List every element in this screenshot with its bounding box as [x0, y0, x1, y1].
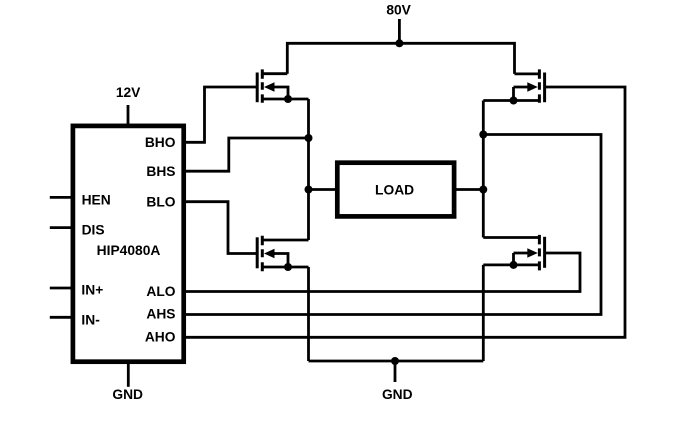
- wire IC bottom to GND stub: [127, 363, 130, 387]
- junction dot lower-right source/body: [510, 261, 518, 269]
- MOSFET upper-right Q2 source lead: [483, 99, 539, 102]
- svg-text:AHO: AHO: [145, 329, 176, 344]
- MOSFET upper-right Q2 channel segments: [538, 69, 541, 102]
- wire node B phase vertical: [307, 99, 310, 240]
- MOSFET lower-right Q4 source lead: [483, 263, 539, 266]
- wire 12V stub to IC top: [127, 105, 130, 125]
- svg-text:AHS: AHS: [146, 307, 175, 322]
- wire BLO gate wire to lower-left MOSFET: [184, 202, 256, 254]
- svg-text:BHO: BHO: [145, 135, 176, 150]
- MOSFET upper-right Q2 drain lead: [515, 73, 540, 76]
- svg-text:IN+: IN+: [81, 283, 103, 298]
- junction dot upper-right source/body: [510, 97, 518, 105]
- junction dot ground rail: [391, 357, 399, 365]
- MOSFET lower-left Q3 body arrow: [274, 254, 289, 268]
- svg-text:IN-: IN-: [81, 313, 100, 328]
- wire node A phase vertical: [482, 101, 485, 238]
- wire BHS sense wire to node B: [184, 138, 309, 171]
- junction dot 80V rail: [395, 39, 403, 47]
- MOSFET upper-left Q1 gate bar: [256, 73, 259, 103]
- MOSFET lower-left Q3 source lead: [262, 266, 308, 269]
- MOSFET upper-right Q2 gate bar: [543, 73, 546, 103]
- MOSFET lower-left Q3 drain lead: [262, 239, 308, 242]
- pin HEN stub: [50, 196, 72, 199]
- MOSFET upper-left Q1 drain lead: [262, 72, 287, 75]
- junction dot lower-left source/body: [284, 263, 292, 271]
- svg-text:ALO: ALO: [146, 284, 175, 299]
- MOSFET upper-left Q1 channel segments: [261, 69, 264, 102]
- svg-text:80V: 80V: [386, 3, 411, 18]
- junction dot BHS on node B: [305, 134, 313, 142]
- svg-text:BLO: BLO: [146, 195, 175, 210]
- MOSFET lower-right Q4 channel segments: [538, 235, 541, 271]
- junction dot AHS on node A: [479, 131, 487, 139]
- svg-text:DIS: DIS: [82, 223, 105, 238]
- junction dot node B to load: [305, 186, 313, 194]
- wire LOAD right terminal to node A: [454, 188, 483, 191]
- junction dot node A to load: [479, 186, 487, 194]
- MOSFET lower-right Q4 drain lead: [483, 236, 539, 239]
- wire 80V top rail with drops to both high-side drains: [287, 43, 514, 74]
- MOSFET lower-left Q3 channel segments: [261, 236, 264, 271]
- wire node B to LOAD left terminal: [309, 188, 338, 191]
- MOSFET upper-left Q1 body arrow: [274, 87, 289, 99]
- IC U1 HIP4080A body: [73, 126, 184, 362]
- MOSFET lower-left Q3 gate bar: [256, 237, 259, 268]
- pin DIS stub: [50, 226, 72, 229]
- svg-text:BHS: BHS: [146, 164, 175, 179]
- MOSFET lower-right Q4 body arrow: [514, 253, 529, 265]
- pin IN- stub: [50, 316, 72, 319]
- wire AHS sense wire to node A: [184, 135, 601, 315]
- wire ground rail: [309, 360, 484, 363]
- svg-text:GND: GND: [112, 387, 143, 402]
- wire ALO gate wire to lower-right MOSFET: [184, 253, 580, 292]
- wire lower-right source down to ground rail: [482, 265, 485, 361]
- wire BHO gate wire to upper-left MOSFET: [184, 87, 256, 142]
- svg-text:HEN: HEN: [82, 193, 111, 208]
- MOSFET upper-left Q1 source lead: [262, 98, 308, 101]
- MOSFET lower-right Q4 gate bar: [543, 237, 546, 268]
- svg-text:12V: 12V: [116, 85, 141, 100]
- junction dot upper-left source/body: [284, 95, 292, 103]
- wire lower-left source down to ground rail: [307, 267, 310, 361]
- wire 80V stub down to rail: [398, 19, 401, 43]
- wire ground stub: [394, 361, 397, 382]
- wire AHO gate wire to upper-right MOSFET: [184, 87, 625, 337]
- pin IN+ stub: [50, 287, 72, 290]
- svg-text:LOAD: LOAD: [375, 183, 414, 198]
- LOAD box: [337, 163, 454, 217]
- svg-text:GND: GND: [382, 387, 413, 402]
- svg-text:HIP4080A: HIP4080A: [97, 243, 161, 258]
- MOSFET upper-right Q2 body arrow: [514, 87, 529, 101]
